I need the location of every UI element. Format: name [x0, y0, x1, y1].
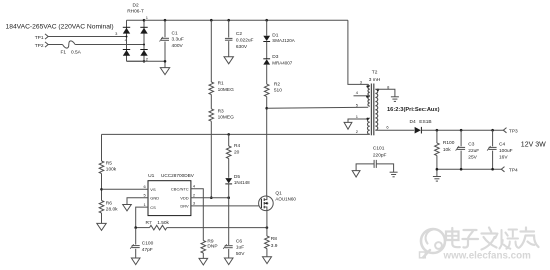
diode D3 [263, 59, 270, 65]
svg-text:1.50k: 1.50k [157, 220, 169, 226]
label 20 [234, 149, 240, 155]
wire R6 to ground [101, 213, 103, 223]
svg-text:1uF: 1uF [236, 245, 244, 251]
svg-text:D2: D2 [133, 3, 139, 9]
pin number 2 (VDD) [193, 192, 196, 197]
test point TP1 [35, 34, 49, 41]
wire pin1 to primary ground [348, 119, 369, 122]
resistor R9 [201, 241, 206, 254]
svg-text:3.3uF: 3.3uF [172, 37, 184, 43]
label 47pF [142, 247, 153, 253]
svg-text:R100: R100 [443, 140, 455, 146]
bridge diode top-right [140, 27, 147, 33]
label C2 [236, 31, 242, 37]
svg-text:28.0k: 28.0k [106, 207, 118, 213]
wire pin 6 to D4 [375, 129, 414, 131]
label C1 [172, 30, 178, 36]
junction R1R3 chain at VDD wire [210, 196, 213, 199]
label D1 [272, 32, 278, 38]
bridge top wire [127, 19, 145, 21]
wire bottom rail bridge to C1 [127, 60, 166, 62]
svg-text:C100: C100 [142, 241, 154, 247]
bridge diode top-left [123, 27, 130, 33]
pin number 1 (CS) [143, 202, 146, 207]
label turns ratio [387, 107, 440, 113]
pin number 1 (T2) [356, 114, 359, 119]
wire Q1 source to R8 node [266, 211, 268, 228]
test point TP2 [35, 42, 49, 49]
label C100 [142, 241, 154, 247]
capacitor C6 [223, 244, 233, 249]
T2 primary winding lower [368, 96, 370, 106]
wire source node to R8 [266, 228, 268, 236]
label F1 [61, 50, 67, 56]
svg-text:R8: R8 [271, 236, 277, 242]
T2 winding tap dot [366, 95, 368, 97]
label 16V [499, 155, 508, 161]
label 50V [236, 251, 245, 257]
svg-text:R4: R4 [234, 143, 240, 149]
ground at T2 pin 1 [344, 122, 352, 129]
label R2 [274, 82, 280, 88]
pin 4 stub wire [354, 95, 368, 97]
T2 primary winding upper [368, 86, 370, 96]
pin number 6 (VS) [143, 184, 146, 189]
pin name CBC/NTC [171, 186, 189, 191]
wire C101 left to primary ground [356, 164, 374, 171]
label RH06-T [127, 9, 144, 15]
wire HV rail down to pin 3 [348, 20, 370, 86]
wire CS node to source node [136, 227, 150, 229]
wire TP1 to bridge pin 3 [48, 36, 126, 38]
wire C4 top [492, 130, 494, 146]
label T2 [372, 70, 378, 76]
bridge left leg wire [126, 20, 128, 61]
bridge right leg wire [143, 20, 145, 61]
bridge bottom wire [127, 60, 145, 62]
label DNP [207, 243, 217, 249]
svg-text:510: 510 [274, 88, 282, 94]
svg-text:22uF: 22uF [468, 148, 479, 154]
capacitor C100 [130, 244, 140, 249]
svg-text:20: 20 [234, 149, 240, 155]
label 0.5A [71, 50, 82, 56]
svg-text:ES1B: ES1B [419, 119, 431, 125]
wire CBC pin down to R9 [191, 189, 203, 241]
wire C3 top [460, 130, 462, 146]
wire C100 to ground [135, 249, 137, 258]
pin name CS [150, 205, 156, 210]
ground at U1 GND pin [123, 205, 132, 211]
ground below C1 [160, 68, 169, 75]
svg-text:C2: C2 [236, 31, 242, 37]
svg-text:25V: 25V [468, 155, 477, 161]
wire R100 bottom [436, 156, 438, 177]
svg-text:R6: R6 [106, 200, 112, 206]
pin number 6 (T2) [386, 125, 389, 130]
svg-text:T2: T2 [372, 70, 378, 76]
wire D5 to VDD node [228, 184, 230, 198]
wire R3 down to VDD node [210, 121, 212, 198]
resistor R7 [150, 225, 167, 230]
diode D1 (TVS) [263, 36, 270, 42]
earth ground at T2 pin 8 [391, 97, 399, 102]
resistor R6 [99, 201, 104, 214]
wire R9 to ground [202, 253, 204, 258]
svg-text:100uF: 100uF [499, 148, 513, 154]
svg-text:220pF: 220pF [373, 152, 387, 158]
pin name DRV [180, 204, 189, 209]
label MRA4007 [272, 60, 293, 65]
svg-text:R2: R2 [274, 82, 280, 88]
op-amp U1 body [148, 181, 191, 216]
junction C4 top [491, 129, 494, 132]
label C101 [373, 146, 385, 152]
resistor R3 [209, 109, 214, 121]
svg-text:www.elecfans.com: www.elecfans.com [443, 250, 532, 261]
svg-text:C6: C6 [236, 238, 242, 244]
wire HV+ rail [144, 19, 348, 21]
junction VS node [100, 188, 103, 191]
label R3 [218, 108, 224, 114]
label SMAJ120A [272, 38, 295, 43]
label 28.0k [106, 207, 118, 213]
svg-text:VDD: VDD [180, 195, 189, 200]
junction R4 top [227, 133, 230, 136]
svg-text:AOU1N60: AOU1N60 [275, 196, 296, 201]
svg-text:TP3: TP3 [509, 128, 518, 134]
bridge diode bottom-left [123, 50, 130, 56]
wire CS pin [136, 207, 148, 228]
resistor R1 [209, 82, 214, 95]
wire pin 8 to earth [375, 89, 395, 97]
pin number 4 (T2) [356, 90, 359, 95]
pin number 5 (GND) [143, 192, 146, 197]
label R9 [207, 239, 213, 245]
test point TP4 [501, 167, 518, 174]
svg-text:TP2: TP2 [35, 43, 44, 49]
junction clamp top [265, 19, 268, 22]
watermark logo and text [420, 228, 539, 262]
junction clamp to primary pin5 [265, 107, 268, 110]
capacitor C2 [225, 38, 233, 40]
T2 core [371, 84, 373, 136]
wire GND pin [127, 198, 148, 205]
wire R7 to source node [167, 227, 267, 229]
junction C3 bottom [460, 168, 463, 171]
svg-text:MRA4007: MRA4007 [272, 60, 293, 65]
pin number 3 (bridge AC input) [115, 31, 118, 36]
label 0.022uF [236, 37, 254, 43]
label R5 [106, 160, 112, 166]
label R4 [234, 143, 240, 149]
capacitor C4 [487, 146, 497, 151]
capacitor C1 [160, 37, 170, 42]
junction CS C100 R7 [134, 226, 137, 229]
svg-text:VS: VS [150, 187, 156, 192]
wire output bottom rail [437, 168, 501, 170]
pin number 4 (CBC) [193, 183, 196, 188]
svg-text:C3: C3 [468, 141, 474, 147]
svg-text:16V: 16V [499, 155, 508, 161]
wire fuse to bridge pin 4 [75, 44, 144, 46]
pin name GND [150, 195, 159, 200]
svg-text:R3: R3 [218, 108, 224, 114]
wire C6 to ground [228, 249, 230, 258]
junction VDD D5 C6 [227, 196, 230, 199]
svg-text:400V: 400V [172, 43, 184, 49]
label R3 10MEG [218, 115, 235, 121]
label D2 [133, 3, 139, 9]
svg-text:R1: R1 [218, 81, 224, 87]
svg-text:100k: 100k [106, 167, 117, 173]
label 1N4148 [234, 180, 250, 185]
label AOU1N60 [275, 196, 296, 201]
label AC input rating [6, 23, 114, 30]
earth ground below R100 [433, 177, 441, 182]
label 22uF [468, 148, 479, 154]
svg-text:UCC28700DBV: UCC28700DBV [161, 173, 195, 178]
svg-text:TP4: TP4 [509, 168, 518, 174]
transistor Q1 [259, 196, 274, 211]
ground below C2 [224, 57, 233, 64]
wire C2 top [228, 20, 230, 37]
label R7 [146, 220, 152, 226]
junction C1 top [164, 19, 167, 22]
pin number 1 (bridge +) [146, 15, 149, 20]
T2 aux winding [368, 118, 370, 134]
wire R4 to D5 [228, 159, 230, 178]
svg-text:CS: CS [150, 205, 156, 210]
svg-text:10k: 10k [443, 147, 451, 153]
junction TP2 at bridge [143, 44, 145, 46]
T2 polarity dot aux [366, 118, 368, 120]
ground below R8 [263, 257, 272, 264]
svg-text:RH06-T: RH06-T [127, 9, 144, 15]
wire aux rail to R4 [228, 134, 230, 146]
ground below C6 [224, 258, 233, 265]
diode D5 [225, 178, 232, 184]
label R1 10MEG [218, 87, 235, 93]
svg-text:0.022uF: 0.022uF [236, 37, 254, 43]
label D4 [410, 119, 416, 125]
label C6 [236, 238, 242, 244]
svg-text:DNP: DNP [207, 243, 217, 249]
wire D4 to TP3 [421, 129, 503, 131]
pin number 4 (bridge AC input) [125, 38, 128, 43]
pin name VS [150, 187, 156, 192]
resistor R5 [99, 161, 104, 174]
ground below R6 [97, 223, 106, 230]
bridge diode bottom-right [140, 50, 147, 56]
ground below R9 [199, 258, 208, 265]
wire R2 to drain node [266, 97, 268, 197]
svg-text:D5: D5 [234, 174, 240, 180]
label R1 [218, 81, 224, 87]
pin number 5 (T2) [356, 103, 359, 108]
label 100k [106, 167, 117, 173]
wire DRV pin to gate [191, 205, 262, 207]
junction R100 top [436, 129, 439, 132]
wire VDD pin [191, 197, 229, 199]
label R8 [271, 236, 277, 242]
svg-text:10MEG: 10MEG [218, 115, 235, 121]
svg-text:C1: C1 [172, 30, 178, 36]
label ES1B [419, 119, 431, 125]
junction C2 top [227, 19, 230, 22]
svg-text:SMAJ120A: SMAJ120A [272, 38, 295, 43]
label 3 mH [369, 77, 381, 83]
wire R8 to ground [266, 249, 268, 257]
svg-text:U1: U1 [148, 173, 155, 179]
capacitor C101 [374, 160, 376, 168]
junction source node [266, 226, 269, 229]
wire rail to R1 [210, 20, 212, 82]
svg-text:DRV: DRV [180, 204, 189, 209]
label D5 [234, 174, 240, 180]
fuse F1 [63, 41, 76, 48]
wire D1 to D3 [266, 42, 268, 59]
label 3.3uF [172, 37, 184, 43]
pin number 8 (T2) [387, 84, 390, 89]
label 12V 3W [521, 142, 546, 149]
resistor R2 [264, 84, 269, 97]
svg-text:3 mH: 3 mH [369, 77, 381, 83]
label UCC28700DBV [161, 173, 195, 178]
junction C4 bottom [491, 168, 494, 171]
svg-text:3.9: 3.9 [271, 243, 278, 249]
label R6 [106, 200, 112, 206]
junction R1 top [210, 19, 213, 22]
label 630V [236, 44, 248, 50]
T2 polarity dot secondary [377, 89, 379, 91]
svg-text:R5: R5 [106, 160, 112, 166]
wire VS pin [102, 188, 149, 190]
pin number 3 (DRV) [193, 201, 196, 206]
label 220pF [373, 152, 387, 158]
svg-text:R7: R7 [146, 220, 152, 226]
capacitor C3 [456, 146, 466, 151]
svg-text:16:2:3(Pri:Sec:Aux): 16:2:3(Pri:Sec:Aux) [387, 107, 440, 113]
wire aux rail [102, 133, 370, 135]
resistor R8 [265, 236, 270, 249]
wire R100 top [436, 130, 438, 143]
pin number 2 (T2) [356, 129, 359, 134]
label 100uF [499, 148, 513, 154]
svg-text:184VAC-265VAC (220VAC Nominal): 184VAC-265VAC (220VAC Nominal) [6, 23, 114, 30]
label R100 [443, 140, 455, 146]
pin name VDD [180, 195, 189, 200]
svg-text:47pF: 47pF [142, 247, 153, 253]
svg-text:D3: D3 [272, 54, 278, 60]
T2 polarity dot primary [366, 85, 368, 87]
wire C101 right to earth [376, 164, 393, 172]
wire C3 bottom [460, 151, 462, 170]
label Q1 [275, 190, 282, 196]
wire R1 to R3 [210, 95, 212, 109]
label 10k [443, 147, 451, 153]
svg-text:TP1: TP1 [35, 35, 44, 41]
label 1.50k [157, 220, 169, 226]
wire rail to D1 [266, 20, 268, 36]
wire VDD down to C6 [228, 198, 230, 245]
label C3 [468, 141, 474, 147]
label D3 [272, 54, 278, 60]
label C4 [499, 141, 505, 147]
svg-text:D4: D4 [410, 119, 416, 125]
diode D4 [415, 127, 422, 134]
svg-text:CBC/NTC: CBC/NTC [171, 186, 189, 191]
pin number 2 (bridge -) [146, 56, 149, 61]
T2 secondary winding [375, 89, 377, 130]
pin number 3 (T2) [360, 79, 363, 84]
wire aux rail down to R5 [101, 134, 103, 161]
wire CS down to C100 [135, 228, 137, 245]
wire C4 bottom [492, 151, 494, 170]
wire D3 to R2 [266, 65, 268, 85]
wire primary pin 5 [267, 107, 369, 108]
resistor R4 [226, 146, 231, 159]
wire R5 to R6 [101, 174, 103, 201]
label 510 [274, 88, 282, 94]
junction C1 bottom [164, 60, 167, 63]
label 25V [468, 155, 477, 161]
wire TP2 to fuse [48, 44, 62, 46]
label 1uF [236, 245, 244, 251]
svg-text:F1: F1 [61, 50, 67, 56]
wire C1 bottom [164, 42, 166, 68]
junction TP1 at bridge [126, 36, 128, 38]
earth ground right of C101 [390, 172, 398, 177]
wire C2 bottom [228, 41, 230, 57]
junction C3 top [460, 129, 463, 132]
svg-text:C101: C101 [373, 146, 385, 152]
svg-text:12V 3W: 12V 3W [521, 142, 546, 149]
test point TP3 [503, 128, 518, 135]
label 3.9 [271, 243, 278, 249]
junction bridge top right [143, 19, 146, 22]
junction R100 bottom [436, 168, 439, 171]
ground below C100 [131, 258, 140, 265]
svg-text:1N4148: 1N4148 [234, 180, 250, 185]
svg-text:50V: 50V [236, 251, 245, 257]
junction bridge bottom right [143, 60, 146, 63]
wire C1 top [164, 20, 166, 37]
svg-text:630V: 630V [236, 44, 248, 50]
svg-text:C4: C4 [499, 141, 505, 147]
ground left of C101 [352, 171, 360, 177]
svg-text:GND: GND [150, 195, 159, 200]
resistor R100 [435, 143, 440, 156]
svg-text:10MEG: 10MEG [218, 87, 235, 93]
svg-text:0.5A: 0.5A [71, 50, 82, 56]
label U1 [148, 173, 155, 179]
label 400V [172, 43, 184, 49]
